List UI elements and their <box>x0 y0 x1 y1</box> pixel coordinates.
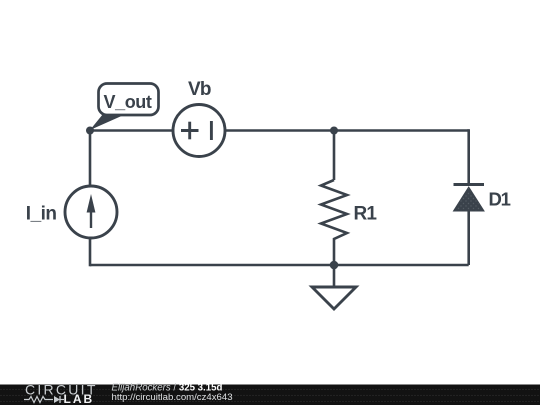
top junction dot <box>330 127 338 135</box>
wire: bottom rail left segment <box>90 264 334 267</box>
resistor R1 <box>321 180 347 241</box>
svg-text:D1: D1 <box>489 189 511 210</box>
diode D1 <box>454 185 485 212</box>
label R1 <box>354 204 378 225</box>
current source I_in <box>65 186 117 238</box>
svg-text:R1: R1 <box>354 204 378 225</box>
node A junction dot (V_out node) <box>86 127 94 135</box>
node label V_out callout <box>90 84 159 131</box>
label D1 <box>489 189 511 210</box>
wire: Vb right terminal to top junction <box>225 129 334 132</box>
label Vb <box>188 79 211 100</box>
voltage source Vb <box>173 105 225 157</box>
wire: top junction to top-right corner <box>334 129 469 132</box>
wire: right side down to diode cathode <box>467 129 470 185</box>
ground <box>312 265 356 309</box>
wire: I_in bottom terminal to bottom-left corner <box>89 239 92 266</box>
svg-text:LAB: LAB <box>64 392 95 405</box>
svg-text:http://circuitlab.com/cz4x643: http://circuitlab.com/cz4x643 <box>112 392 233 403</box>
wire: diode anode down to bottom-right corner <box>467 210 470 265</box>
wire: top junction down to R1 <box>333 131 336 181</box>
wire: bottom rail right segment <box>334 264 469 267</box>
wire: node A down to I_in top terminal <box>89 131 92 187</box>
bottom junction dot <box>330 261 339 270</box>
CircuitLab logo <box>24 382 98 405</box>
label I_in <box>26 204 57 225</box>
footer credit line <box>112 382 233 402</box>
svg-text:Vb: Vb <box>188 79 211 100</box>
wire: node A (V_out) to Vb left terminal <box>90 129 173 132</box>
wire: R1 bottom to bottom junction <box>333 241 336 265</box>
svg-text:I_in: I_in <box>26 204 57 225</box>
footer bar <box>0 385 540 405</box>
svg-text:V_out: V_out <box>104 92 152 112</box>
